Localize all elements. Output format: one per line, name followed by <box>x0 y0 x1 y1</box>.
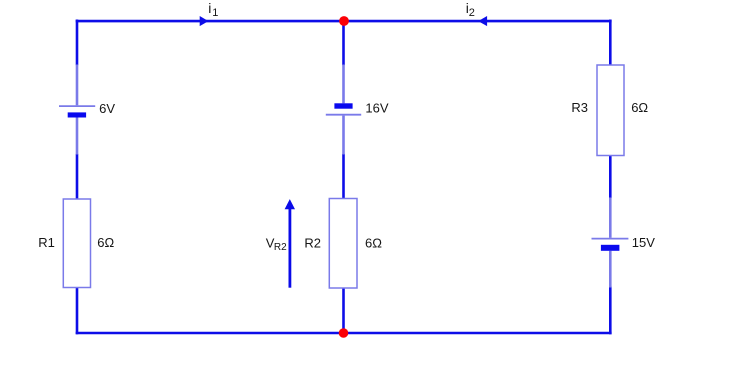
svg-text:6V: 6V <box>99 101 115 116</box>
svg-text:6Ω: 6Ω <box>631 100 648 115</box>
svg-text:6Ω: 6Ω <box>97 235 114 250</box>
svg-text:1: 1 <box>212 7 218 19</box>
svg-text:2: 2 <box>469 7 475 19</box>
svg-text:i: i <box>208 0 211 16</box>
svg-text:R2: R2 <box>274 242 287 253</box>
svg-text:R2: R2 <box>304 235 321 250</box>
svg-text:16V: 16V <box>365 101 388 116</box>
svg-text:R3: R3 <box>571 100 588 115</box>
svg-text:15V: 15V <box>632 235 655 250</box>
svg-text:6Ω: 6Ω <box>365 235 382 250</box>
svg-text:R1: R1 <box>38 235 55 250</box>
